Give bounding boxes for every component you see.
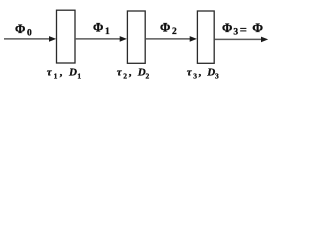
attenuator box 1 xyxy=(57,10,76,63)
attenuator box 3 xyxy=(197,11,214,63)
wire output arrow from box 3 xyxy=(215,37,269,43)
wire input arrow into box 1 xyxy=(4,36,56,42)
attenuator box 2 xyxy=(127,11,145,63)
wire arrow box 1 to box 2 xyxy=(76,36,127,42)
wire arrow box 2 to box 3 xyxy=(146,36,197,42)
